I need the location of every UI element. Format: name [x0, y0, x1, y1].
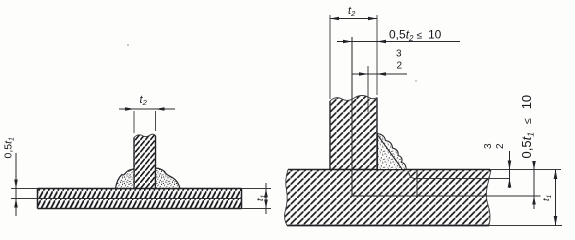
t2 dimension line [330, 18, 377, 20]
stem break line [134, 134, 156, 137]
t2 dimension line [119, 108, 175, 110]
0,5t1 arrowheads (fig2, outside pair) [532, 161, 536, 170]
t2 arrowheads (outside) [125, 107, 134, 111]
0,5t2 arrowheads (outside pair) [343, 40, 352, 44]
svg-text:3: 3 [483, 143, 494, 149]
svg-text:3: 3 [396, 49, 402, 60]
t1 dimension line [265, 183, 267, 214]
base plate 2 right break edge [486, 170, 491, 226]
t1 dimension (fig2) line [555, 170, 557, 226]
stem plate outline [134, 136, 156, 189]
hardness measuring line (horizontal, 2mm) [408, 171, 510, 179]
scan specks [127, 44, 129, 46]
t2 arrowheads (inside) [330, 17, 339, 21]
stem plate 2 (hatched, wavy break at top) [330, 96, 377, 170]
plate 1 outline [38, 189, 242, 209]
base plate 2 (hatched, wavy broken ends) [285, 170, 491, 226]
3/2 leader line (right) [509, 151, 511, 188]
0,5t1 dimension line [15, 153, 17, 216]
2mm arrowheads (outside pair) [359, 72, 368, 76]
weld fusion diagonal [378, 136, 402, 170]
0,5t1 arrowheads (outside) [14, 180, 18, 189]
base plate 2 left break edge [285, 170, 288, 226]
hardness measuring line (vertical, 2mm) [367, 66, 369, 112]
plate 1 mid-plane line [38, 198, 242, 200]
svg-text:2: 2 [495, 143, 506, 149]
weld bead fig2 (stippled cloud) [378, 134, 407, 170]
base plate mid-plane line [352, 195, 541, 197]
t2 dimension (fig1): extension lines [134, 111, 156, 133]
stem mid-plane line (0,5 t2) [351, 37, 353, 196]
t1 arrowheads (fig2, inside) [554, 170, 558, 180]
right weld fillet (stippled) [156, 168, 181, 189]
base plate 2 bottom line (plate + extension) [287, 225, 489, 227]
0,5t1 dimension line (fig2) [533, 161, 535, 209]
svg-text:2: 2 [397, 61, 403, 72]
specimen zone right edge [416, 170, 418, 197]
stem 2 break line [330, 96, 377, 102]
t1 dimension (fig1 right): extension lines [242, 189, 272, 209]
0,5t2 dimension line with label [337, 41, 460, 43]
t1 arrowheads (inside) [264, 189, 268, 198]
0,5t1 dimension (fig1 left): extension lines [11, 189, 38, 199]
t2 dimension (fig2): extension lines [330, 15, 377, 99]
base plate 2 top line (plate + extension) [288, 169, 490, 171]
stem plate 2 edges [330, 98, 377, 170]
plate 1 upper half (hatched) [38, 189, 242, 199]
2mm dimension line (top) [353, 73, 408, 75]
vertical stem plate (hatched, wavy break at top) [134, 134, 156, 188]
3/2 arrowheads (right, outside pair) [508, 161, 512, 170]
plate 1 lower half (hatched, offset) [38, 199, 242, 209]
left weld fillet (stippled) [116, 169, 135, 189]
